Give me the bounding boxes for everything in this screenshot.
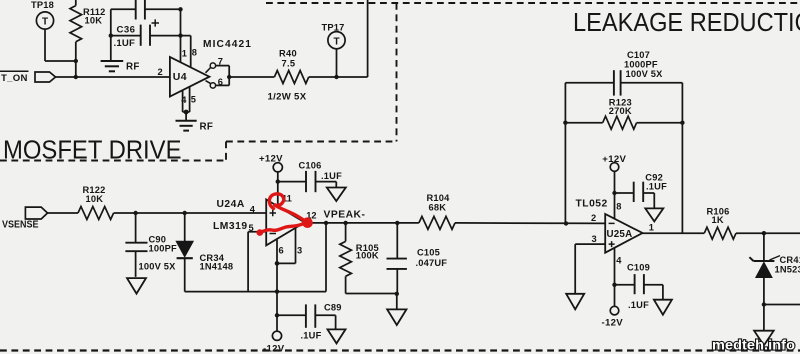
svg-text:C89: C89 bbox=[324, 302, 342, 312]
svg-text:-12V: -12V bbox=[602, 317, 624, 328]
svg-text:-12V: -12V bbox=[263, 343, 285, 354]
capacitor C92 bbox=[615, 172, 668, 208]
capacitor C106 bbox=[278, 160, 342, 192]
test point TP17 bbox=[322, 22, 346, 77]
capacitor C89 bbox=[277, 302, 342, 340]
svg-text:1: 1 bbox=[182, 49, 187, 59]
svg-text:1000PF: 1000PF bbox=[624, 59, 658, 69]
net label VPEAK- bbox=[324, 209, 366, 220]
ground (C92) bbox=[645, 208, 663, 221]
ground (C89) bbox=[328, 329, 346, 343]
svg-text:medteh.info: medteh.info bbox=[712, 337, 795, 353]
svg-text:T: T bbox=[333, 36, 339, 47]
wire U24A out (VPEAK-) bbox=[305, 222, 419, 224]
svg-text:100PF: 100PF bbox=[149, 244, 178, 254]
svg-text:68K: 68K bbox=[429, 203, 447, 213]
capacitor C36 bbox=[111, 19, 191, 48]
svg-text:8: 8 bbox=[192, 47, 197, 57]
svg-text:R40: R40 bbox=[279, 48, 297, 58]
svg-text:.047UF: .047UF bbox=[416, 258, 448, 268]
svg-text:8: 8 bbox=[616, 201, 621, 211]
node: R105 junction bbox=[343, 221, 347, 225]
ground (zener) bbox=[754, 331, 774, 346]
svg-text:1N5231: 1N5231 bbox=[775, 264, 800, 274]
svg-text:.1UF: .1UF bbox=[646, 181, 667, 191]
capacitor (top, partially cut off) bbox=[111, 0, 181, 20]
node: C109 junction bbox=[612, 283, 616, 287]
node: U4 output junction bbox=[227, 75, 231, 79]
svg-text:U4: U4 bbox=[173, 71, 187, 83]
svg-text:C105: C105 bbox=[417, 247, 440, 257]
capacitor C109 bbox=[615, 263, 663, 310]
svg-text:1K: 1K bbox=[712, 215, 724, 225]
svg-text:6: 6 bbox=[279, 245, 284, 255]
svg-text:100V 5X: 100V 5X bbox=[139, 262, 177, 272]
svg-text:.1UF: .1UF bbox=[114, 38, 136, 49]
+12V supply (U24A pin 11) bbox=[259, 153, 283, 205]
feedback wire left (C107/R123 to pin2) bbox=[563, 83, 567, 224]
wire R40 to corner bbox=[309, 76, 368, 78]
wire VSENSE to R122 bbox=[48, 212, 79, 214]
title LEAKAGE REDUCTION bbox=[573, 7, 800, 37]
svg-text:.1UF: .1UF bbox=[321, 171, 342, 181]
resistor R123 bbox=[565, 97, 682, 129]
svg-text:1N4148: 1N4148 bbox=[200, 261, 234, 271]
wire U25A out to right edge bbox=[643, 232, 705, 234]
feedback wire right (to output) bbox=[680, 83, 684, 234]
svg-text:6: 6 bbox=[218, 77, 223, 87]
U24A pin 5 wire bbox=[248, 232, 266, 292]
watermark medteh.info bbox=[712, 337, 795, 353]
U25A pin 3 wire bbox=[575, 244, 605, 294]
svg-text:.1UF: .1UF bbox=[628, 300, 649, 310]
svg-text:TP18: TP18 bbox=[31, 0, 54, 10]
-12V supply (U24A) bbox=[263, 331, 285, 354]
svg-text:VPEAK-: VPEAK- bbox=[324, 209, 366, 220]
svg-text:C109: C109 bbox=[627, 263, 650, 273]
node: CR34 junction bbox=[183, 211, 187, 215]
svg-text:7.5: 7.5 bbox=[282, 59, 296, 69]
node: feedback rail crossing bbox=[275, 289, 279, 293]
node: R112/T_ON wire junction bbox=[74, 75, 78, 79]
node: C92 junction bbox=[612, 191, 616, 195]
ground rail (R105/C105) bbox=[346, 292, 399, 310]
svg-text:.1UF: .1UF bbox=[301, 331, 322, 341]
svg-text:MIC4421: MIC4421 bbox=[203, 39, 252, 50]
zener diode CR41 (1N5231) bbox=[749, 233, 800, 304]
svg-text:C36: C36 bbox=[117, 24, 136, 35]
-12V supply (U25A) bbox=[602, 306, 624, 328]
svg-text:RF: RF bbox=[126, 61, 140, 72]
resistor R105 bbox=[340, 223, 379, 294]
node: C106 junction bbox=[276, 179, 280, 183]
ground RF (C36) bbox=[101, 61, 140, 72]
buffer U4 (MIC4421) bbox=[170, 39, 252, 97]
red annotation scribble bbox=[257, 194, 313, 236]
node: feedback left junction bbox=[564, 221, 568, 225]
svg-text:T: T bbox=[42, 17, 48, 28]
svg-text:4: 4 bbox=[250, 205, 256, 215]
resistor R40 bbox=[268, 48, 309, 102]
svg-text:2: 2 bbox=[158, 67, 163, 77]
ground (R105/C105) bbox=[387, 309, 406, 325]
node: zener anode junction bbox=[762, 302, 766, 306]
wire: vertical to RF ground bbox=[110, 9, 112, 60]
dashed border bottom bbox=[0, 349, 800, 351]
node: C105 junction bbox=[395, 221, 399, 225]
svg-text:MOSFET DRIVE: MOSFET DRIVE bbox=[3, 135, 182, 165]
+12V supply (U25A pin 8) bbox=[602, 154, 626, 219]
resistor R122 bbox=[78, 185, 114, 219]
ground RF (U4) bbox=[176, 121, 214, 133]
svg-text:10K: 10K bbox=[85, 16, 103, 26]
capacitor C90 bbox=[125, 213, 177, 277]
resistor R106 bbox=[704, 206, 736, 239]
title MOSFET DRIVE bbox=[3, 135, 182, 165]
wire zener node to right edge bbox=[764, 304, 800, 306]
ground (C109) bbox=[654, 300, 672, 315]
capacitor C105 bbox=[387, 223, 448, 294]
node: C36 left junction bbox=[109, 33, 113, 37]
node: C89 junction bbox=[275, 313, 279, 317]
node: top cap / pin1 line bbox=[178, 7, 182, 11]
svg-text:2: 2 bbox=[591, 213, 596, 223]
svg-text:4: 4 bbox=[181, 95, 187, 105]
node: TP18/R112 junction bbox=[74, 59, 78, 63]
diode CR34 (1N4148) bbox=[177, 213, 234, 292]
ground (C106) bbox=[327, 188, 346, 202]
svg-text:10K: 10K bbox=[86, 194, 104, 204]
feedback wire (VPEAK- to pin5/CR34) bbox=[185, 291, 326, 293]
ground (C90) bbox=[127, 278, 146, 294]
svg-text:1: 1 bbox=[649, 222, 654, 232]
capacitor C107 bbox=[565, 50, 682, 95]
svg-text:100V 5X: 100V 5X bbox=[626, 69, 664, 79]
U4 pin 2 label bbox=[158, 67, 163, 77]
svg-text:LM319: LM319 bbox=[213, 221, 248, 232]
wire R106 to right edge bbox=[736, 232, 800, 234]
svg-text:TL052: TL052 bbox=[576, 199, 608, 210]
svg-text:U25A: U25A bbox=[607, 229, 633, 240]
svg-text:U24A: U24A bbox=[217, 199, 245, 210]
resistor R112 bbox=[70, 0, 106, 77]
node: VPEAK-/feedback junction bbox=[324, 221, 328, 225]
wire R104 to U25A pin2 bbox=[455, 222, 605, 225]
svg-text:7: 7 bbox=[218, 56, 223, 66]
svg-text:4: 4 bbox=[616, 255, 622, 265]
input connector T_ON bbox=[0, 71, 56, 84]
wire U4 out to R40 bbox=[229, 76, 274, 78]
svg-text:CR41: CR41 bbox=[780, 255, 800, 265]
wire zener to ground bbox=[763, 305, 765, 331]
U4 output pins 7,6 (inverting bubbles) bbox=[206, 56, 230, 88]
svg-text:R104: R104 bbox=[427, 193, 451, 203]
svg-text:C106: C106 bbox=[299, 160, 322, 170]
wire R122 to U24A pin4 bbox=[114, 212, 267, 214]
svg-text:LEAKAGE REDUCTION: LEAKAGE REDUCTION bbox=[573, 7, 800, 37]
svg-text:T_ON: T_ON bbox=[1, 73, 28, 84]
ground (U25A pin3) bbox=[566, 294, 584, 310]
op-amp U25A (TL052) bbox=[576, 199, 654, 266]
test point TP18 bbox=[31, 0, 76, 61]
wire corner up to top edge bbox=[367, 0, 369, 77]
U24A pins 6,3 to -12V bbox=[275, 228, 296, 331]
svg-text:TP17: TP17 bbox=[322, 22, 345, 32]
node: C36 / pin1 line junction bbox=[178, 33, 182, 37]
U25A pin 4 wire bbox=[614, 247, 616, 306]
svg-text:100K: 100K bbox=[356, 251, 379, 261]
U4 pin 8 line bbox=[191, 36, 197, 68]
op-amp U24A (LM319) bbox=[213, 193, 317, 255]
wire VPEAK- down to feedback bbox=[325, 223, 327, 292]
dashed section border (MOSFET DRIVE / LEAKAGE REDUCTION) bbox=[0, 3, 800, 161]
input connector VSENSE bbox=[2, 207, 48, 231]
wire T_ON to U4 pin2 bbox=[56, 76, 170, 78]
resistor R104 bbox=[419, 193, 455, 229]
svg-text:VSENSE: VSENSE bbox=[2, 220, 39, 231]
svg-text:3: 3 bbox=[297, 245, 302, 255]
U4 pins 4,5 to ground bbox=[181, 87, 196, 121]
U4 pin 1 line bbox=[181, 9, 187, 62]
node: CR4 junction bbox=[762, 231, 766, 235]
svg-text:3: 3 bbox=[592, 234, 597, 244]
node: TP17 junction bbox=[334, 75, 338, 79]
svg-text:1/2W 5X: 1/2W 5X bbox=[268, 92, 307, 103]
svg-text:RF: RF bbox=[200, 122, 214, 133]
node: C90 junction bbox=[133, 211, 137, 215]
svg-text:5: 5 bbox=[191, 95, 196, 105]
svg-text:270K: 270K bbox=[609, 106, 632, 116]
